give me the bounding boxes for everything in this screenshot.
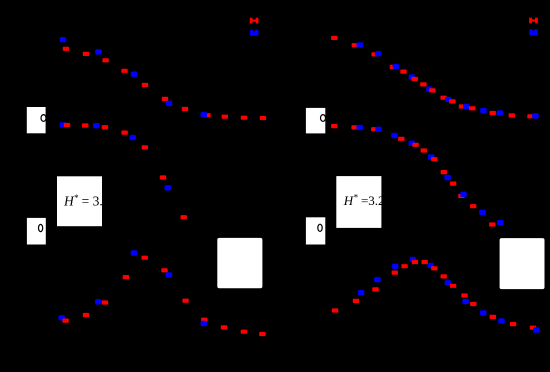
legend marker red squares, right panel	[529, 18, 538, 24]
empty white legend box, right panel	[500, 238, 545, 289]
legend marker blue circles, right panel	[529, 29, 538, 35]
data series: right panel bottom curve	[332, 257, 540, 333]
annotation box H*=3.2, left panel	[57, 176, 110, 226]
annotation box H*=3.2, right panel	[336, 176, 384, 228]
legend marker blue circles, left panel	[250, 30, 259, 36]
data series: left panel middle curve	[60, 122, 187, 219]
legend marker red squares, left panel	[250, 18, 259, 24]
svg-text:H* =3.2: H* =3.2	[343, 193, 385, 208]
y tick label box 0, left panel upper	[27, 107, 46, 133]
data series: right panel middle curve	[331, 124, 504, 227]
y tick label box 0, left panel lower	[27, 218, 46, 245]
y tick label box 0, right panel lower	[306, 217, 325, 244]
svg-text:H* = 3.2: H* = 3.2	[63, 193, 110, 209]
empty white legend box, left panel	[217, 238, 262, 288]
y tick label box 0, right panel upper	[306, 108, 326, 133]
data series: left panel top curve	[60, 37, 266, 120]
data series: right panel top curve	[331, 36, 539, 119]
data series: left panel bottom curve	[58, 250, 265, 336]
